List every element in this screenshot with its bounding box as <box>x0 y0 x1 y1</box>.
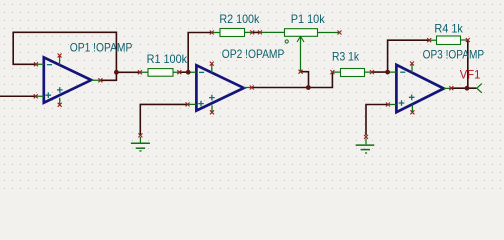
junction node D (R3/R4/OP3 -) <box>385 70 390 75</box>
junction node E (OP3 output/R4/VF1) <box>465 86 470 91</box>
wire R1 right to OP2 - node <box>179 71 188 73</box>
wire P1 wiper to OP2 output node <box>301 72 309 88</box>
wire junction A to R1 left <box>116 71 139 73</box>
svg-text:P1 10k: P1 10k <box>291 12 326 26</box>
wire OP1 feedback loop output to - input <box>13 32 116 80</box>
wire OP3 output to node E and probe <box>451 87 476 89</box>
label R1 100k <box>147 52 188 66</box>
junction node A (OP1 output/feedback) <box>114 70 119 75</box>
resistor R3 <box>332 69 372 77</box>
potentiometer P1 <box>260 29 340 72</box>
svg-text:R3 1k: R3 1k <box>332 50 360 64</box>
wire R4 right down to output node E <box>467 40 469 88</box>
svg-text:OP2 !OPAMP: OP2 !OPAMP <box>222 47 285 61</box>
wire node B up to R2 left <box>188 33 212 73</box>
junction node B (R1/R2/OP2 -) <box>186 70 191 75</box>
wire OP2 + input to ground <box>140 104 187 134</box>
ground G2 (OP3 + input) <box>356 139 375 154</box>
wire node D up to R4 left <box>388 40 430 72</box>
label VF1 <box>460 68 481 82</box>
wire OP1 + input from left edge <box>0 95 36 97</box>
svg-text:R1 100k: R1 100k <box>147 52 188 66</box>
label R3 1k <box>332 50 360 64</box>
label OP1 !OPAMP <box>70 40 133 54</box>
label P1 10k <box>291 12 326 26</box>
resistor R2 <box>212 29 252 37</box>
resistor R1 <box>140 69 179 77</box>
wire OP3 + input to ground <box>366 105 388 136</box>
label R4 1k <box>434 22 463 36</box>
wire R2 right to P1 left <box>252 31 260 33</box>
resistor R4 <box>429 36 468 45</box>
label R2 100k <box>219 12 260 26</box>
op-amp OP3 <box>388 64 452 113</box>
op-amp OP2 <box>188 64 252 113</box>
junction node C (OP2 output/P1 wiper) <box>306 85 311 90</box>
label OP3 !OPAMP <box>423 47 485 61</box>
ground G1 (OP2 + input) <box>131 137 150 151</box>
op-amp OP1 <box>36 56 101 105</box>
wire OP2 output to R3 left <box>252 72 333 87</box>
svg-text:OP3 !OPAMP: OP3 !OPAMP <box>423 47 485 61</box>
pin marks (red x) <box>34 30 470 138</box>
label OP2 !OPAMP <box>222 47 285 61</box>
svg-text:VF1: VF1 <box>460 68 481 82</box>
svg-text:R4 1k: R4 1k <box>434 22 463 36</box>
svg-text:R2 100k: R2 100k <box>219 12 260 26</box>
voltage probe VF1 arrow <box>477 84 482 93</box>
wire R3 right to node D <box>372 71 388 73</box>
svg-text:OP1 !OPAMP: OP1 !OPAMP <box>70 40 133 54</box>
